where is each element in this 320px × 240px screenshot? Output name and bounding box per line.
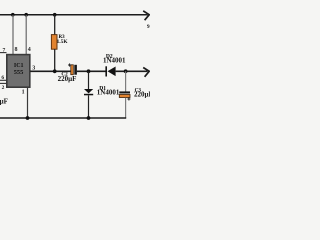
svg-text:2: 2 [2,85,5,91]
node junction D1 ground [87,116,91,120]
svg-text:1N4001: 1N4001 [103,57,126,65]
svg-text:220µF: 220µF [134,91,150,99]
node junction pin8 rail [11,13,15,17]
svg-text:IC1: IC1 [14,63,24,69]
wire pin 2 stub [0,82,7,84]
wire rail to R3 top [54,15,56,35]
wire D1 node to diode [88,71,90,89]
node junction pin4 rail [24,13,28,17]
IC IC1 555 timer [7,55,30,88]
node junction C3 top [124,69,128,73]
svg-text:8: 8 [15,47,18,53]
svg-text:4: 4 [28,47,31,53]
diode D2 1N4001 (cathode left) [105,66,115,76]
resistor R3 [51,35,57,50]
wire D2 to output arrow [116,70,148,72]
node junction R3/C2 [53,69,57,73]
wire D1 to ground rail [88,95,90,118]
svg-text:9: 9 [147,24,150,30]
svg-text:µF: µF [0,97,8,105]
polarity + of C3 [127,98,130,101]
wire pin 8 to rail [12,15,14,55]
wire C3 bottom lead to ground rail [125,98,127,118]
arrow -V output [143,68,149,77]
arrow +V supply output [143,11,149,20]
capacitor C3 (polarized, orange plate bottom) [119,91,130,97]
wire pin 3 output to C2 [30,70,71,72]
node junction pin1 ground [26,116,30,120]
polarity + of C2 [68,63,71,66]
wire C2 to D2 [77,70,106,72]
wire pin 6 stub [0,79,7,81]
wire pin 7 stub [0,52,7,54]
wire R3 bottom to output node [54,49,56,71]
svg-text:220µF: 220µF [58,75,77,83]
svg-text:1.5K: 1.5K [57,39,69,45]
node junction R3 rail [53,13,57,17]
wire pin 1 to ground rail [27,88,29,118]
capacitor C2 (polarized, orange plate left) [71,65,77,75]
svg-text:555: 555 [14,69,24,76]
node junction D1 top [87,69,91,73]
wire pin 4 to rail [25,15,27,55]
wire C3 top lead [125,71,127,91]
wire ground rail [0,117,126,119]
svg-text:1N4001: 1N4001 [97,88,120,96]
diode D1 1N4001 (cathode down) [84,89,93,95]
svg-text:1: 1 [22,89,25,95]
wire top supply rail [0,14,148,16]
